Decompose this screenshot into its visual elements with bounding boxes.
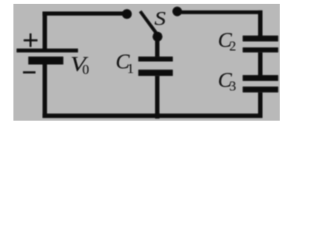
svg-text:S: S [154, 8, 166, 30]
gray background panel [13, 4, 279, 121]
switch S lever arm [139, 10, 158, 34]
capacitor C3 top plate [243, 75, 279, 81]
wire: bottom horizontal [43, 114, 263, 118]
switch left contact node (dot) [122, 9, 132, 19]
battery V0 negative plate (short thick) [28, 57, 63, 65]
label S [154, 8, 166, 30]
wire: right vertical upper (down to C2) [258, 10, 262, 36]
capacitor C2 bottom plate [243, 47, 279, 52]
wire: C1 stub upper (switch pole down to C1) [155, 37, 159, 57]
svg-text:1: 1 [127, 61, 134, 76]
wire: right vertical lower (C3 to bottom wire) [258, 92, 262, 118]
wire: left vertical lower (battery - down to bottom wire) [43, 64, 47, 118]
svg-text:0: 0 [82, 62, 89, 77]
capacitor C1 bottom plate [138, 70, 173, 76]
capacitor C3 bottom plate [243, 87, 279, 93]
svg-text:3: 3 [229, 79, 236, 94]
capacitor C1 top plate [138, 57, 173, 62]
label V0 [70, 53, 89, 76]
switch right contact node (dot) [172, 7, 182, 17]
svg-text:2: 2 [229, 39, 236, 54]
switch pole node (center dot) [153, 32, 163, 42]
wire: left vertical upper (top wire down to battery + plate) [43, 12, 47, 50]
minus label [23, 71, 36, 73]
wire: C1 stub lower (C1 down to bottom wire) [155, 76, 159, 119]
wire: top-left horizontal (battery + up to switch left contact) [43, 12, 124, 16]
plus label [24, 39, 38, 41]
wire: right vertical middle (C2 to C3) [258, 52, 262, 75]
capacitor C2 top plate [243, 36, 279, 42]
wire: top-right horizontal (right contact to right branch corner) [177, 10, 262, 14]
battery V0 positive plate (long thin) [17, 49, 78, 53]
